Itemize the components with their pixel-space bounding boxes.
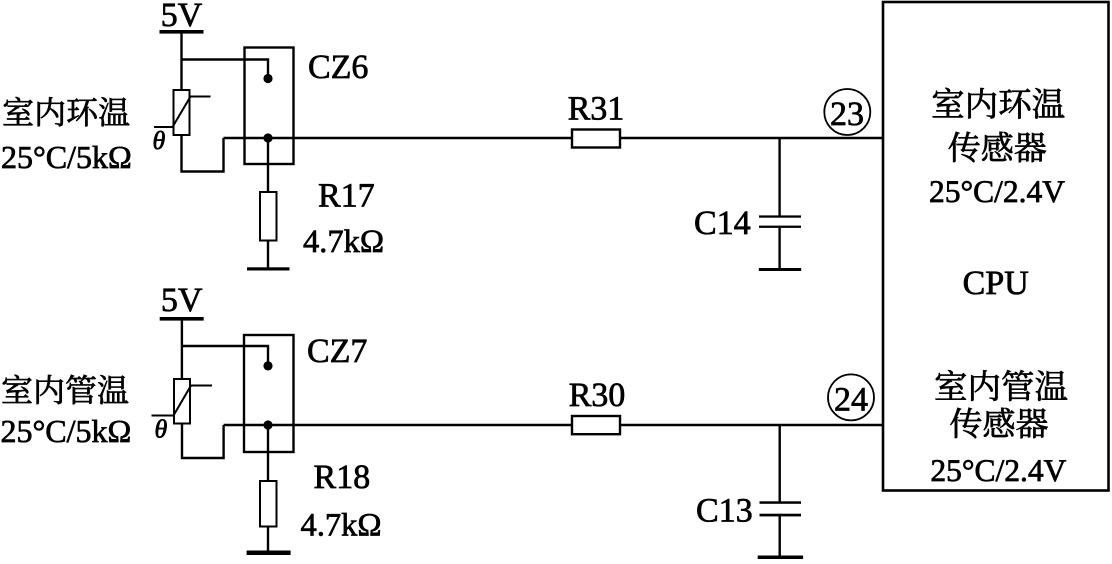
label CZ7 (308, 339, 366, 362)
node 23 circle (824, 89, 870, 135)
label 室内环温 (4, 97, 130, 126)
wire C14 branch (778, 138, 780, 216)
thermistor diagonal top (154, 97, 211, 128)
CPU text 25℃/2.4V bottom (932, 460, 1066, 481)
CPU text 室内环温 (933, 88, 1065, 119)
resistor R17 (260, 192, 277, 241)
wire R18 to ground (267, 527, 269, 552)
wire CZ6 pin2 down to R17 (267, 138, 269, 192)
wire 5V branch to CZ7 pin1 (182, 346, 268, 362)
capacitor C13 plate1 (760, 501, 802, 504)
junction dot CZ7 pin1 (263, 361, 272, 370)
label R18 (314, 465, 368, 488)
wire R17 to ground (267, 241, 269, 269)
CPU text 传感器 top (949, 132, 1046, 163)
label R18 value 4.7kΩ (301, 513, 380, 536)
CPU text 传感器 bottom (950, 408, 1047, 439)
label R17 (319, 184, 374, 206)
ground bar R18 (247, 551, 291, 556)
power 5V label bottom (163, 289, 202, 312)
node 24 circle (828, 374, 874, 420)
resistor R18 (260, 481, 277, 527)
label C13 (697, 499, 751, 522)
capacitor C14 plate1 (759, 215, 801, 217)
capacitor C14 plate2 (759, 226, 801, 228)
thermistor body top (174, 90, 190, 135)
node 23 label (831, 102, 862, 125)
ground bar C14 (759, 268, 801, 271)
resistor R31 (572, 130, 620, 148)
thermistor theta label bottom (156, 419, 167, 437)
CPU label (964, 271, 1028, 294)
label 25℃/5kΩ top (2, 146, 130, 169)
label R30 (570, 383, 624, 406)
wire main line 24 left (224, 424, 572, 426)
label R31 (569, 97, 623, 120)
wire thermistor bottom loop top (182, 135, 224, 172)
connector CZ7 box (244, 335, 294, 452)
label R17 value 4.7kΩ (304, 229, 383, 252)
wire 5V vertical bottom (181, 320, 183, 379)
label CZ6 (309, 55, 367, 78)
wire main line 24 right (620, 424, 883, 426)
wire 5V branch to CZ6 pin1 (182, 60, 269, 76)
ground bar R17 (247, 267, 290, 270)
thermistor body bottom (174, 379, 190, 424)
wire main line 23 left (224, 137, 573, 139)
wire 5V vertical top (180, 33, 182, 90)
wire C14 to ground (778, 228, 780, 268)
CPU text 25℃/2.4V top (930, 181, 1064, 202)
label 25℃/5kΩ bottom (2, 420, 130, 443)
label 室内管温 (2, 375, 128, 405)
junction dot CZ6 pin1 (263, 74, 272, 83)
wire C13 to ground (779, 516, 781, 556)
label C14 (695, 211, 750, 234)
CPU block box (883, 2, 1109, 491)
capacitor C13 plate2 (760, 514, 802, 517)
wire C13 branch (779, 425, 781, 502)
node 24 label (835, 388, 867, 411)
power 5V bar top (160, 30, 204, 34)
ground bar C13 (758, 556, 803, 560)
resistor R30 (572, 416, 620, 434)
power 5V bar bottom (160, 317, 204, 321)
junction dot CZ7 pin2 (263, 420, 272, 429)
junction dot CZ6 pin2 (263, 133, 272, 142)
connector CZ6 box (245, 48, 294, 165)
CPU text 室内管温 (936, 370, 1068, 401)
thermistor theta label top (154, 131, 165, 149)
power 5V label top (163, 4, 202, 27)
thermistor diagonal bottom (152, 386, 213, 416)
wire CZ7 pin2 down to R18 (267, 425, 269, 481)
wire thermistor bottom loop bottom (182, 424, 224, 459)
wire main line 23 right (620, 137, 883, 139)
